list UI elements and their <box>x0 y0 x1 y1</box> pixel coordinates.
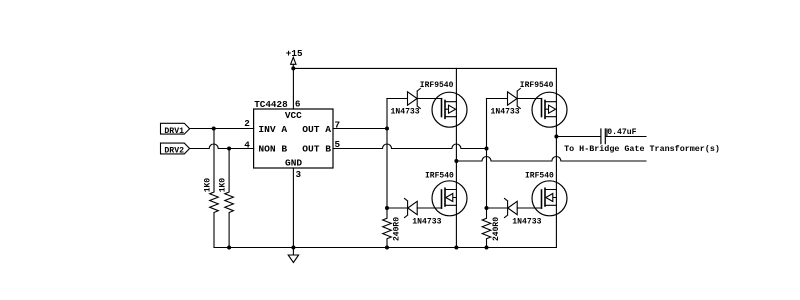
ground symbol <box>288 248 298 263</box>
svg-text:1K0: 1K0 <box>218 178 227 193</box>
junction dot gate bus 2 / D4 / R4 <box>485 206 489 210</box>
junction dot gate bus / D3 / R3 <box>385 206 389 210</box>
resistor R4 240R0 <box>482 208 491 248</box>
junction dot R3 ground <box>385 246 389 250</box>
wire gate bus column 1 <box>386 99 388 209</box>
svg-text:GND: GND <box>285 158 302 169</box>
wire half-bridge 2 drain-source column <box>555 68 557 247</box>
wire upper output to capacitor <box>556 136 600 138</box>
resistor R1 1K0 <box>210 129 219 248</box>
junction dot upper output tap <box>554 135 558 139</box>
junction dot Q3 source ground <box>454 246 458 250</box>
svg-text:To H-Bridge Gate Transformer(s: To H-Bridge Gate Transformer(s) <box>564 144 720 154</box>
wire bottom ground rail <box>214 247 556 249</box>
svg-text:OUT B: OUT B <box>302 143 331 154</box>
svg-text:2: 2 <box>244 118 250 129</box>
zener diode D1 1N4733 <box>408 89 421 109</box>
svg-text:IRF9540: IRF9540 <box>420 81 454 90</box>
svg-text:INV A: INV A <box>258 124 287 135</box>
wire gate bus column 2 <box>486 99 488 209</box>
wire capacitor to transformer <box>606 136 647 138</box>
zener diode D4 1N4733 <box>505 198 518 217</box>
svg-text:3: 3 <box>296 169 302 180</box>
wire U1 pin 7 OUT A <box>333 128 387 130</box>
wire DRV1 to pin 2 <box>190 128 254 130</box>
wire zener D2 anode <box>487 98 508 100</box>
junction dot DRV2 / R2 <box>227 147 231 151</box>
svg-text:240R0: 240R0 <box>393 217 402 241</box>
svg-text:NON B: NON B <box>258 143 287 154</box>
op-amp driver U1 TC4428 box <box>254 109 333 168</box>
junction dot at +15 rail <box>291 66 295 70</box>
zener diode D2 1N4733 <box>508 89 521 109</box>
svg-text:1N4733: 1N4733 <box>512 217 541 226</box>
resistor R3 240R0 <box>383 208 392 248</box>
wire top supply rail <box>293 67 556 69</box>
svg-text:IRF9540: IRF9540 <box>520 81 554 90</box>
junction dot OUT B node <box>485 147 489 151</box>
wire U1 pin 5 OUT B with hops <box>333 144 487 149</box>
svg-text:VCC: VCC <box>285 110 302 121</box>
svg-text:0.47uF: 0.47uF <box>607 128 636 137</box>
C1 label tick <box>606 129 608 137</box>
resistor R2 1K0 <box>225 149 234 248</box>
svg-text:6: 6 <box>295 98 301 109</box>
svg-text:+15: +15 <box>286 48 303 59</box>
junction dot DRV1 / R1 <box>212 127 216 131</box>
wire U1 pin 3 GND <box>292 168 294 248</box>
wire zener D3 cathode <box>387 207 408 209</box>
wire +15 stub <box>292 64 294 68</box>
transistor Q3 IRF540 <box>432 181 467 216</box>
svg-text:IRF540: IRF540 <box>525 172 554 181</box>
junction dot lower output tap <box>454 159 458 163</box>
junction dot OUT A node <box>385 127 389 131</box>
wire U1 pin 6 VCC <box>292 68 294 109</box>
junction dot R2 ground <box>227 246 231 250</box>
svg-text:TC4428: TC4428 <box>254 99 288 110</box>
svg-text:1N4733: 1N4733 <box>491 108 520 117</box>
input flag DRV1 <box>161 123 190 134</box>
wire lower output with hops <box>456 157 646 162</box>
wire D4 to Q4 gate <box>517 207 541 209</box>
wire DRV2 to pin 4 with hop <box>190 144 254 149</box>
wire half-bridge 1 drain-source column <box>455 68 457 247</box>
zener diode D3 1N4733 <box>405 198 418 217</box>
transistor Q1 IRF9540 <box>432 92 467 127</box>
wire D3 to Q3 gate <box>417 207 441 209</box>
wire zener D1 anode <box>387 98 408 100</box>
svg-text:OUT A: OUT A <box>302 124 331 135</box>
power +15 arrow symbol <box>291 57 296 64</box>
svg-text:1N4733: 1N4733 <box>391 108 420 117</box>
svg-text:IRF540: IRF540 <box>425 172 454 181</box>
svg-text:240R0: 240R0 <box>492 217 501 241</box>
capacitor C1 0.47uF <box>601 129 605 144</box>
input flag DRV2 <box>161 143 190 154</box>
svg-text:1K0: 1K0 <box>203 178 212 193</box>
wire D2 to Q2 gate <box>517 98 541 100</box>
junction dot pin3 ground <box>291 246 295 250</box>
transistor Q2 IRF9540 <box>532 92 567 127</box>
wire D1 to Q1 gate <box>417 98 441 100</box>
svg-text:DRV1: DRV1 <box>164 127 184 136</box>
junction dot R4 ground <box>485 246 489 250</box>
svg-text:1N4733: 1N4733 <box>412 217 441 226</box>
svg-text:DRV2: DRV2 <box>164 147 184 156</box>
wire zener D4 cathode <box>487 207 508 209</box>
transistor Q4 IRF540 <box>532 181 567 216</box>
